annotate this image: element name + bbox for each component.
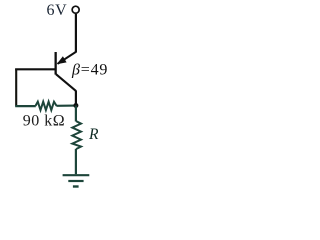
wire collector vertical down to junction (75, 91, 77, 106)
wire from 6V terminal down to emitter bend (75, 14, 77, 53)
ground symbol (63, 174, 90, 176)
svg-text:β=49: β=49 (71, 62, 108, 79)
transistor Q1 base lead wire (15, 68, 55, 70)
transistor Q1 emitter arrowhead (57, 56, 67, 64)
node 6V supply terminal circle (72, 6, 79, 13)
resistor R zigzag (72, 121, 81, 149)
wire junction down to resistor R (75, 106, 77, 122)
wire resistor R down to ground (75, 149, 77, 174)
svg-text:6V: 6V (47, 2, 68, 19)
wire left vertical from base lead down (15, 69, 17, 106)
resistor 90k zigzag (36, 102, 57, 110)
svg-text:90 kΩ: 90 kΩ (23, 113, 65, 130)
svg-text:R: R (88, 126, 99, 143)
junction dot (73, 103, 78, 108)
transistor Q1 base bar (55, 52, 57, 75)
wire resistor to junction (56, 105, 76, 107)
transistor Q1 emitter diagonal (PNP, arrow into base) (58, 52, 76, 64)
transistor Q1 collector diagonal (56, 74, 76, 91)
wire bottom horizontal to resistor (15, 105, 36, 107)
